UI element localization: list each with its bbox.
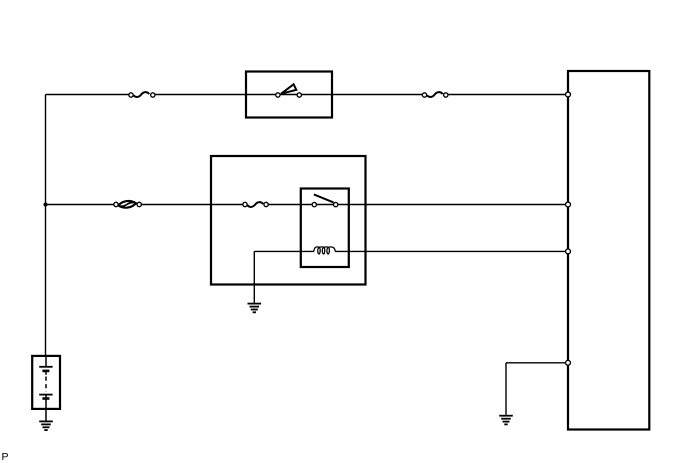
ignition switch contacts [276,93,302,97]
fusible link FL [114,201,142,208]
battery B1 [32,356,60,421]
wire: ground stem to relay coil [254,251,314,302]
relay coil L1 [314,247,336,254]
wire: left vertical battery feed [45,95,47,357]
ignition switch box [246,72,332,118]
ECU pin 4 [566,360,571,365]
ignition switch lever (key wedge) [281,84,296,94]
fuse F1 (top left) [129,92,155,97]
relay contact [312,194,338,206]
fuse F2 (top right) [422,92,448,97]
wire: node to fusible link [46,204,117,206]
wire: fusible link to fuse F3 [139,204,246,206]
ECU box [568,71,649,430]
relay U1 inner box [301,189,349,268]
ECU pin 2 [566,202,571,207]
wire: top feed from battery vertical to fuse F1 [46,94,132,96]
wire: fuse F3 through relay contact to ECU terminal 2 [266,204,566,206]
node A: junction dot battery feed / middle wire [43,202,47,206]
wire: ECU terminal 4 to ground [506,363,566,415]
label P (page marker) [2,451,9,463]
ground (relay coil) [248,304,262,313]
wire: fuse F1 through ignition switch to fuse F2 [152,94,425,96]
relay block outer box [211,156,366,285]
ground (battery) [39,421,53,430]
ECU pin 3 [566,249,571,254]
wire: relay coil to ECU terminal 3 [335,250,566,252]
ECU pin 1 [566,92,571,97]
fuse F3 (inside relay block) [243,202,268,207]
ground (ECU) [499,416,513,425]
wire: fuse F2 to ECU terminal 1 [445,94,565,96]
